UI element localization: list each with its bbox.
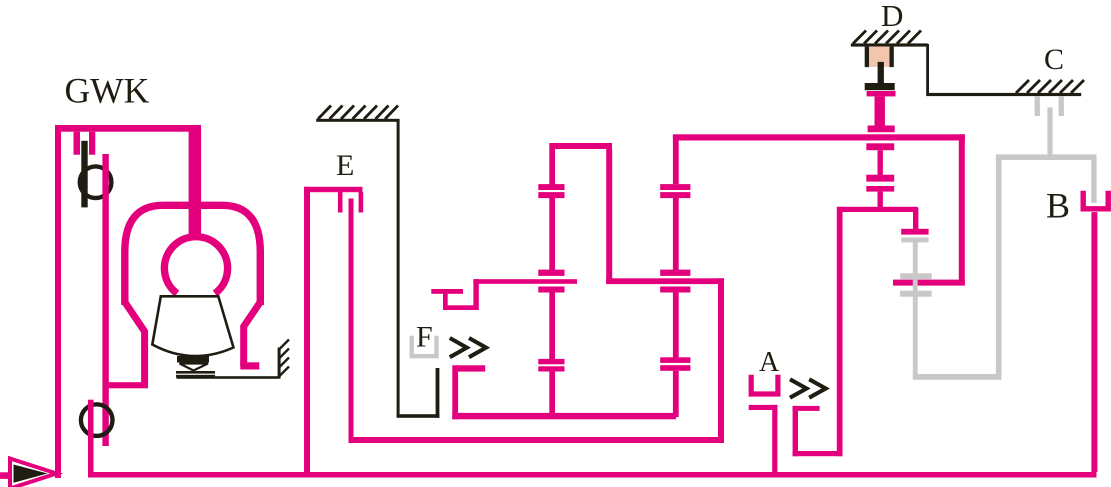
wire top right line	[673, 134, 965, 140]
shaft right planetary (segments)	[673, 135, 679, 417]
freewheel A symbol >>	[790, 379, 826, 397]
torque converter turbine (inner ring)	[164, 237, 227, 294]
wire left outer vertical	[55, 125, 61, 478]
wire right riser down	[959, 134, 965, 285]
ground hatch for brake F (top)	[316, 119, 399, 122]
shaft D stem	[878, 150, 883, 175]
shaft D thick	[875, 96, 885, 126]
brake E bar	[304, 187, 363, 192]
input arrow	[10, 459, 57, 487]
wire input hook to planetary	[431, 279, 577, 310]
svg-text:A: A	[759, 347, 780, 378]
gear mesh D lower plate	[866, 186, 894, 192]
shaft left planetary (segments)	[549, 143, 555, 417]
clutch A drum hook bar	[793, 406, 820, 411]
ground drum right vertical (black)	[436, 368, 440, 418]
wire bottom main line	[88, 472, 1097, 478]
gear mesh gray plate 1	[901, 238, 928, 243]
wire planetary mid horizontal	[606, 278, 724, 284]
wire gray tee horizontal	[996, 154, 1097, 160]
ground hatch for brake D	[851, 43, 928, 46]
svg-text:E: E	[336, 149, 354, 182]
wire E left vertical to bottom line	[304, 187, 310, 478]
shaft D T-bar below line	[866, 143, 894, 150]
clutch A drum hook up	[793, 406, 798, 456]
wire planetary bottom bar	[452, 413, 676, 419]
torque converter shell right bevel and leg	[244, 302, 261, 366]
shaft converter input	[189, 128, 202, 240]
ground wall with hatching (stator)	[278, 348, 281, 379]
wire main left vertical	[102, 154, 108, 446]
torque converter outer shell (pump)	[125, 205, 260, 305]
gear mesh M5 (right shaft middle)	[660, 270, 690, 293]
ground drum vertical (black)	[397, 119, 400, 417]
stator bell (black outline)	[152, 296, 233, 356]
shaft D flange (magenta)	[867, 91, 896, 96]
shaft E (interleaved vertical)	[349, 199, 354, 444]
pump P1 (circle)	[80, 166, 112, 198]
clutch A bracket	[751, 375, 778, 394]
wire planetary riser (left)	[606, 149, 612, 284]
gear mesh M2 (left shaft middle)	[538, 270, 564, 293]
wire gray branch to B	[1091, 158, 1096, 203]
gear mesh D upper plate	[866, 175, 894, 182]
drum right vertical to T-bar	[913, 208, 918, 229]
ground drum bottom (black)	[397, 414, 440, 418]
brake C prongs (gray)	[1035, 96, 1064, 116]
freewheel F symbol >>	[450, 338, 486, 357]
pump P2 (circle)	[81, 404, 113, 436]
one-way clutch lower plate	[176, 371, 215, 377]
svg-text:GWK: GWK	[65, 71, 150, 111]
gear mesh M3 (left shaft lower)	[538, 359, 564, 372]
ground base line (stator)	[177, 376, 280, 379]
one-way clutch wedge	[180, 364, 209, 371]
gear mesh M6 (right shaft lower)	[660, 357, 690, 371]
brake D piston rod	[878, 62, 884, 86]
brake F bracket (gray)	[412, 336, 437, 357]
shaft gray clutch stack	[913, 242, 918, 374]
clutch A inner member	[749, 405, 778, 477]
wire right riser of inner line	[718, 278, 724, 443]
shaft B down to bottom line	[1091, 212, 1097, 472]
brake D cylinder walls	[865, 47, 894, 68]
shaft C stem (gray)	[1047, 108, 1052, 158]
wire gray left branch down	[996, 158, 1002, 377]
gear mesh M1 (left shaft upper)	[538, 184, 564, 198]
T-bar magenta (mesh with gray)	[901, 229, 928, 235]
brake D black flange	[865, 83, 895, 90]
wire ring feed horizontal	[893, 280, 965, 286]
brake D piston (salmon)	[869, 47, 889, 67]
wire gray bottom horizontal	[913, 374, 1002, 380]
svg-text:D: D	[881, 0, 903, 33]
svg-text:C: C	[1044, 43, 1064, 76]
gear mesh M4 (right shaft upper)	[660, 184, 690, 198]
gear mesh gray plate 3	[900, 291, 932, 297]
gear mesh gray plate 2	[900, 273, 932, 279]
wire converter leg to main line	[103, 382, 148, 388]
clutch F drum (magenta C-shape)	[452, 365, 485, 419]
wire output-side vertical through pump P2	[88, 400, 94, 477]
shaft pump drive (black)	[81, 141, 87, 208]
planetary top bar	[550, 143, 612, 149]
clutch B bracket	[1083, 191, 1108, 209]
svg-text:B: B	[1046, 186, 1070, 226]
brake E prongs	[338, 192, 363, 213]
wire input top line	[55, 125, 201, 132]
svg-text:F: F	[416, 321, 433, 354]
one-way clutch plate (filled)	[177, 356, 209, 363]
clutch A drum horizontal	[838, 207, 918, 212]
converter pump foot	[240, 362, 259, 369]
wire input stub at arrow	[0, 472, 10, 479]
wire inner bottom line	[349, 437, 725, 443]
ground hatch for brake C	[1016, 80, 1084, 93]
shaft D lower flange	[868, 126, 895, 133]
clutch A drum bottom	[793, 451, 843, 456]
ground line from D to C (black)	[926, 44, 1081, 96]
shaft D stem 2	[878, 192, 883, 207]
clutch WK prongs	[74, 132, 96, 155]
clutch A drum left vertical	[837, 207, 843, 456]
torque converter shell left bevel and leg	[125, 302, 145, 385]
